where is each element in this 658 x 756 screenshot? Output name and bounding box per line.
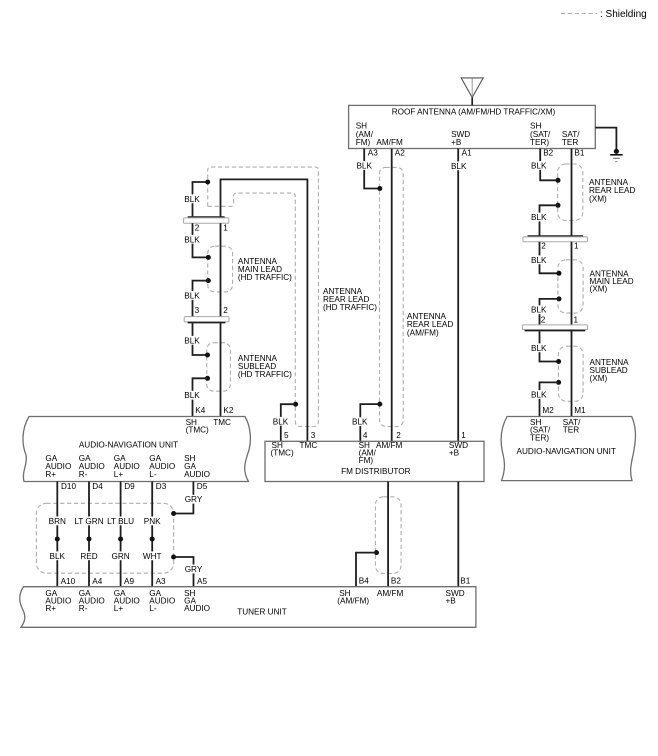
svg-text:3: 3 bbox=[195, 306, 200, 315]
wire colour label BLK bbox=[184, 194, 201, 203]
svg-text:LT GRN: LT GRN bbox=[74, 517, 103, 526]
svg-text:GRY: GRY bbox=[185, 495, 203, 504]
svg-text:BLK: BLK bbox=[356, 162, 372, 171]
ground wire from roof antenna case bbox=[595, 128, 616, 151]
wire colour label WHT bbox=[142, 551, 163, 560]
svg-text:(AM/FM): (AM/FM) bbox=[407, 328, 439, 337]
svg-text:1: 1 bbox=[574, 315, 579, 324]
junction dot XM main shield top bbox=[557, 271, 562, 276]
svg-text:BLK: BLK bbox=[531, 391, 547, 400]
svg-text:A3: A3 bbox=[156, 577, 166, 586]
shielding around antenna sublead (XM) bbox=[558, 346, 583, 401]
svg-text:3: 3 bbox=[311, 431, 316, 440]
splice junction R+ bbox=[55, 537, 60, 542]
inline connector C3 (pins 2/1) bbox=[528, 235, 584, 237]
svg-text:+B: +B bbox=[451, 138, 462, 147]
junction dot sublead shield bottom bbox=[205, 376, 210, 381]
wire colour label BLK bbox=[530, 305, 547, 314]
wire BLK shield drain to connector C4 pin 2 bbox=[540, 299, 560, 325]
wire BLK shield drain to FM distributor pin 5 bbox=[281, 404, 296, 441]
svg-text:RED: RED bbox=[80, 552, 97, 561]
wire colour label PNK bbox=[143, 517, 162, 526]
junction dot sublead shield top bbox=[205, 353, 210, 358]
svg-text:4: 4 bbox=[363, 431, 368, 440]
roof antenna unit box bbox=[349, 105, 596, 148]
wire AM/FM antenna rear lead (pin A2 to FM distributor pin 2) bbox=[391, 149, 393, 442]
svg-text:BLK: BLK bbox=[531, 256, 547, 265]
junction dot XM rear shield bottom bbox=[556, 203, 561, 208]
svg-text:L-: L- bbox=[149, 604, 157, 613]
wire colour label BLK bbox=[184, 291, 201, 300]
svg-text:A2: A2 bbox=[395, 149, 405, 158]
wire colour label BLK bbox=[184, 336, 201, 345]
junction dot AM/FM shield to FM distributor pin 4 bbox=[377, 402, 382, 407]
svg-text:K4: K4 bbox=[195, 406, 205, 415]
ground symbol G501 bbox=[614, 149, 619, 154]
wire TMC antenna rear lead (connector to FM distributor pin 3) bbox=[221, 179, 308, 441]
junction dot TMC shield to FM distributor pin 5 bbox=[293, 402, 298, 407]
svg-text:1: 1 bbox=[223, 224, 228, 233]
shielding around AM/FM lead to tuner bbox=[375, 497, 401, 574]
splice junction L+ bbox=[118, 537, 123, 542]
wire colour label GRY bbox=[184, 565, 203, 574]
svg-text:BLK: BLK bbox=[184, 235, 200, 244]
svg-text:(XM): (XM) bbox=[589, 194, 607, 203]
svg-text:L-: L- bbox=[149, 470, 157, 479]
svg-text:TER): TER) bbox=[530, 433, 549, 442]
tuner unit box bbox=[20, 587, 476, 628]
svg-text:B4: B4 bbox=[359, 577, 369, 586]
wire colour label BLK bbox=[184, 235, 201, 244]
svg-text:5: 5 bbox=[284, 431, 289, 440]
wire BLK shield drain to connector C3 pin 2 bbox=[540, 205, 559, 237]
svg-text:ROOF ANTENNA (AM/FM/HD TRAFFIC: ROOF ANTENNA (AM/FM/HD TRAFFIC/XM) bbox=[392, 108, 556, 117]
svg-text:AUDIO-NAVIGATION UNIT: AUDIO-NAVIGATION UNIT bbox=[79, 440, 178, 449]
svg-text:GRN: GRN bbox=[111, 552, 129, 561]
wire colour label BLK bbox=[530, 255, 547, 264]
svg-text:B1: B1 bbox=[460, 577, 470, 586]
svg-text:BLK: BLK bbox=[184, 292, 200, 301]
svg-text:B1: B1 bbox=[574, 149, 584, 158]
svg-text:D10: D10 bbox=[61, 482, 76, 491]
svg-text:GRY: GRY bbox=[185, 565, 203, 574]
svg-text:L+: L+ bbox=[114, 470, 124, 479]
wire BLK shield drain upper (sublead) bbox=[193, 323, 208, 355]
shielding around antenna main lead (HD traffic) bbox=[208, 246, 233, 292]
svg-text:TER: TER bbox=[562, 138, 578, 147]
wire GA audio L+ (LT BLU/GRN) bbox=[120, 482, 122, 587]
wire colour label BLK bbox=[184, 391, 201, 400]
wire SAT/TER core between connectors bbox=[571, 242, 573, 325]
shielding ring closure near connector bbox=[208, 205, 234, 207]
wire colour label BLK bbox=[530, 343, 547, 352]
svg-text:(HD TRAFFIC): (HD TRAFFIC) bbox=[323, 303, 377, 312]
svg-text:: Shielding: : Shielding bbox=[600, 9, 647, 20]
svg-text:BLK: BLK bbox=[184, 336, 200, 345]
legend: shielding dashed sample bbox=[561, 13, 597, 15]
svg-text:BLK: BLK bbox=[184, 391, 200, 400]
svg-text:2: 2 bbox=[396, 431, 401, 440]
svg-text:2: 2 bbox=[541, 315, 546, 324]
wire GA audio R+ (BRN/BLK) bbox=[56, 482, 58, 587]
audio-navigation unit box (right) bbox=[501, 417, 635, 481]
wire colour label GRN bbox=[111, 551, 131, 560]
svg-text:WHT: WHT bbox=[143, 552, 162, 561]
svg-text:FM): FM) bbox=[359, 456, 374, 465]
svg-text:2: 2 bbox=[223, 306, 228, 315]
svg-text:A1: A1 bbox=[462, 149, 472, 158]
svg-text:D5: D5 bbox=[197, 482, 208, 491]
svg-text:2: 2 bbox=[195, 224, 200, 233]
shielding around antenna sublead (HD traffic) bbox=[207, 343, 231, 392]
antenna mast symbol bbox=[461, 78, 483, 98]
splice junction L- bbox=[150, 537, 155, 542]
junction dot XM sublead shield bottom bbox=[556, 380, 561, 385]
wire colour label BLK bbox=[48, 551, 66, 560]
svg-text:AUDIO: AUDIO bbox=[184, 604, 210, 613]
wire GA audio R- (LT GRN/RED) bbox=[88, 482, 90, 587]
svg-text:M1: M1 bbox=[574, 406, 586, 415]
svg-text:R+: R+ bbox=[45, 604, 56, 613]
wire colour label LT BLU bbox=[106, 517, 136, 526]
svg-text:(TMC): (TMC) bbox=[186, 426, 209, 435]
wire TMC core between connectors bbox=[220, 223, 222, 316]
svg-text:(XM): (XM) bbox=[590, 374, 608, 383]
audio-navigation unit box (left) bbox=[23, 417, 250, 482]
svg-text:1: 1 bbox=[461, 431, 466, 440]
junction dot GRY to shield top bbox=[171, 511, 176, 516]
junction dot drain A3 to shield bbox=[377, 186, 382, 191]
svg-text:FM DISTRIBUTOR: FM DISTRIBUTOR bbox=[341, 467, 411, 476]
svg-text:D9: D9 bbox=[124, 482, 135, 491]
svg-text:+B: +B bbox=[449, 449, 460, 458]
wire TMC core to audio-navigation unit pin K2 bbox=[220, 322, 222, 417]
FM distributor box bbox=[265, 441, 484, 481]
svg-text:AM/FM: AM/FM bbox=[376, 138, 403, 147]
svg-text:2: 2 bbox=[541, 242, 546, 251]
svg-text:(HD TRAFFIC): (HD TRAFFIC) bbox=[238, 370, 292, 379]
svg-text:BLK: BLK bbox=[531, 213, 547, 222]
wire colour label BLK bbox=[530, 213, 547, 222]
wire BLK shield drain above connector C1 bbox=[193, 182, 208, 216]
wire SWD +B (FM distributor B1 to tuner B1) bbox=[457, 482, 459, 587]
svg-text:BLK: BLK bbox=[531, 306, 547, 315]
junction dot shield to GRY lower bbox=[171, 555, 176, 560]
svg-text:A5: A5 bbox=[197, 577, 207, 586]
svg-text:PNK: PNK bbox=[144, 517, 161, 526]
svg-text:AM/FM: AM/FM bbox=[377, 589, 404, 598]
wire BLK shield drain upper (XM main lead) bbox=[540, 242, 560, 274]
svg-text:AUDIO-NAVIGATION UNIT: AUDIO-NAVIGATION UNIT bbox=[517, 447, 616, 456]
wire colour label RED bbox=[80, 551, 99, 560]
svg-text:(XM): (XM) bbox=[590, 285, 608, 294]
svg-text:D4: D4 bbox=[92, 482, 103, 491]
svg-text:M2: M2 bbox=[542, 406, 554, 415]
svg-text:A3: A3 bbox=[368, 149, 378, 158]
svg-text:TMC: TMC bbox=[300, 441, 318, 450]
wire colour label BLK bbox=[356, 161, 373, 170]
svg-text:1: 1 bbox=[574, 242, 579, 251]
svg-text:TUNER UNIT: TUNER UNIT bbox=[237, 608, 287, 617]
wire BLK shield drain to tuner pin B4 bbox=[356, 553, 377, 587]
junction dot to main lead shield top bbox=[206, 255, 211, 260]
svg-text:BLK: BLK bbox=[352, 418, 368, 427]
splice junction R- bbox=[87, 537, 92, 542]
svg-text:R+: R+ bbox=[45, 470, 56, 479]
svg-text:AM/FM: AM/FM bbox=[376, 441, 403, 450]
svg-text:+B: +B bbox=[446, 597, 457, 606]
wire colour label BLK bbox=[450, 161, 467, 170]
wire GA audio L- (PNK/WHT) bbox=[151, 482, 153, 587]
wire colour label BLK bbox=[272, 417, 289, 426]
shielding ring around TMC antenna rear lead (HD traffic) bbox=[208, 167, 319, 426]
svg-text:L+: L+ bbox=[114, 604, 124, 613]
svg-text:BLK: BLK bbox=[531, 162, 547, 171]
shielding around antenna main lead (XM) bbox=[558, 260, 583, 313]
junction dot main lead shield bottom bbox=[206, 278, 211, 283]
wire colour label LT GRN bbox=[74, 517, 105, 526]
junction dot XM main shield bottom bbox=[557, 296, 562, 301]
wire BLK shield drain to FM distributor pin 4 bbox=[360, 404, 380, 441]
svg-text:AUDIO: AUDIO bbox=[184, 470, 210, 479]
svg-text:FM): FM) bbox=[356, 138, 371, 147]
wire AM/FM lead (FM distributor B2 to tuner B2) bbox=[387, 482, 389, 587]
svg-text:BLK: BLK bbox=[184, 195, 200, 204]
svg-text:R-: R- bbox=[79, 470, 88, 479]
wire colour label BLK bbox=[530, 390, 547, 399]
svg-text:R-: R- bbox=[79, 604, 88, 613]
wire BLK shield drain from pin A3 bbox=[364, 149, 380, 189]
svg-text:BLK: BLK bbox=[451, 162, 467, 171]
inline connector C1 (pins 2/1) bbox=[188, 216, 225, 218]
svg-text:BLK: BLK bbox=[50, 552, 66, 561]
svg-text:TER: TER bbox=[563, 426, 579, 435]
wire BLK shield drain lower (main lead) bbox=[193, 281, 209, 317]
wire colour label BLK bbox=[351, 417, 368, 426]
wire GRY shield drain to tuner pin A5 bbox=[174, 557, 194, 587]
svg-text:K2: K2 bbox=[223, 406, 233, 415]
junction dot drain to XM rear shield top bbox=[556, 178, 561, 183]
svg-text:A4: A4 bbox=[92, 577, 102, 586]
svg-text:A9: A9 bbox=[124, 577, 134, 586]
wire colour label GRY bbox=[184, 495, 203, 504]
junction dot drain to shield ring bbox=[205, 180, 210, 185]
wire SAT/TER core (roof pin B1 to connector C3) bbox=[571, 149, 573, 237]
wire SAT/TER core to audio-navigation unit pin M1 bbox=[571, 330, 573, 417]
svg-text:TMC: TMC bbox=[213, 418, 231, 427]
shielding around GA audio wires bbox=[36, 503, 173, 573]
svg-text:TER): TER) bbox=[530, 138, 549, 147]
wire BLK shield drain to pin K4 bbox=[193, 378, 208, 416]
shielding around AM/FM antenna rear lead bbox=[380, 167, 404, 426]
svg-text:A10: A10 bbox=[61, 577, 76, 586]
svg-text:(TMC): (TMC) bbox=[271, 449, 294, 458]
svg-text:LT BLU: LT BLU bbox=[107, 517, 134, 526]
wire colour label BRN bbox=[48, 517, 67, 526]
svg-text:(AM/FM): (AM/FM) bbox=[337, 597, 369, 606]
junction dot shield to tuner pin B4 bbox=[374, 550, 379, 555]
svg-text:(HD TRAFFIC): (HD TRAFFIC) bbox=[238, 273, 292, 282]
svg-text:BLK: BLK bbox=[531, 344, 547, 353]
svg-text:B2: B2 bbox=[543, 149, 553, 158]
svg-text:BLK: BLK bbox=[273, 417, 289, 426]
wire BLK shield drain to pin M2 bbox=[540, 382, 559, 416]
wire colour label BLK bbox=[530, 161, 547, 170]
svg-text:BRN: BRN bbox=[49, 517, 66, 526]
svg-text:B2: B2 bbox=[391, 577, 401, 586]
wire BLK shield drain upper (main lead) bbox=[193, 223, 209, 257]
wire BLK shield drain upper (XM sublead) bbox=[540, 332, 559, 362]
wire GRY shield drain from nav pin D5 bbox=[174, 482, 194, 514]
shielding around antenna rear lead (XM) bbox=[558, 164, 583, 220]
svg-text:D3: D3 bbox=[156, 482, 167, 491]
junction dot XM sublead shield top bbox=[556, 359, 561, 364]
wire SWD +B (pin A1 to FM distributor pin 1) bbox=[457, 149, 459, 442]
wire BLK shield drain from roof pin B2 bbox=[540, 149, 558, 181]
